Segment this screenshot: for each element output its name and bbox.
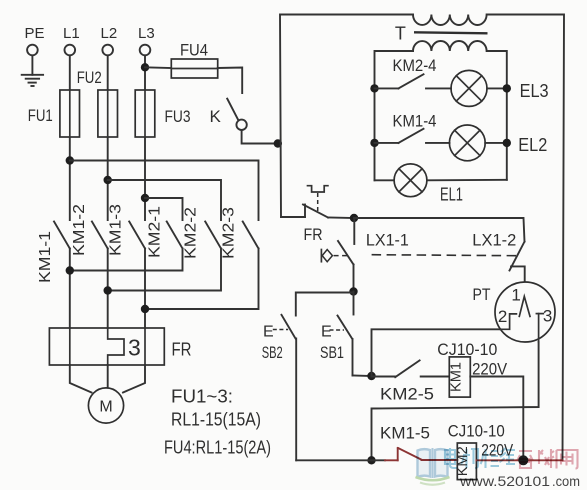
watermark book icon bbox=[416, 448, 450, 485]
contact KM2-2 bbox=[183, 207, 222, 259]
wire KM2-2 bottom tie bbox=[108, 249, 221, 291]
svg-text:3: 3 bbox=[543, 306, 552, 325]
wire L3 to FU4 bbox=[145, 66, 171, 69]
node KM2-4 left bbox=[370, 84, 378, 92]
node K-box junction bbox=[274, 139, 282, 147]
node KM1-4 left bbox=[370, 139, 378, 147]
node bottom left bbox=[367, 456, 375, 464]
svg-text:FR: FR bbox=[172, 340, 192, 360]
svg-text:FU3: FU3 bbox=[165, 107, 191, 126]
svg-text:EL2: EL2 bbox=[518, 135, 547, 155]
wire L1 bus upper bbox=[69, 56, 71, 220]
svg-text:KM2-2: KM2-2 bbox=[183, 207, 200, 259]
dashed link LX1-1 LX1-2 bbox=[372, 255, 519, 256]
lamp EL2 bbox=[449, 125, 485, 161]
svg-text:T: T bbox=[395, 24, 406, 44]
ground bbox=[22, 75, 43, 86]
wire KM2 coil to right edge bbox=[476, 459, 562, 461]
contact KM2-3 bbox=[221, 207, 259, 259]
switch K bbox=[210, 99, 247, 130]
wire L3 bus upper bbox=[144, 56, 146, 220]
svg-text:FR: FR bbox=[304, 225, 323, 244]
thermal overload FR box bbox=[49, 328, 191, 365]
svg-text:RL1-15(15A): RL1-15(15A) bbox=[171, 410, 261, 430]
contact KM2-1 bbox=[147, 206, 183, 258]
lamp EL1 bbox=[394, 164, 463, 205]
watermark title (vector pseudo-glyphs) bbox=[445, 448, 578, 469]
terminal PE bbox=[25, 25, 45, 56]
contact KM1-5 bbox=[372, 425, 431, 461]
svg-text:2: 2 bbox=[498, 307, 507, 326]
contact KM1-2 bbox=[71, 204, 108, 256]
svg-text:KM1-2: KM1-2 bbox=[71, 204, 88, 256]
contact LX1-2 bbox=[472, 232, 524, 297]
node L1 tie bbox=[66, 156, 74, 164]
node FR-LX1-1 bbox=[350, 214, 358, 222]
wire KM1 coil to bottom bbox=[470, 377, 523, 461]
wire KM2-1 bottom tie bbox=[70, 249, 183, 271]
node L2 lower tie bbox=[104, 286, 112, 294]
terminal L1 bbox=[63, 25, 80, 56]
node L3-FU4 junction bbox=[141, 63, 149, 71]
svg-text:KM2-5: KM2-5 bbox=[380, 386, 434, 404]
svg-text:FU4:RL1-15(2A): FU4:RL1-15(2A) bbox=[164, 438, 271, 458]
node L3 lower tie bbox=[141, 305, 149, 313]
svg-text:KM1: KM1 bbox=[449, 362, 465, 392]
contact KM1-1 bbox=[37, 222, 70, 284]
node EL3 right bbox=[503, 84, 511, 92]
button SB2 bbox=[262, 315, 297, 461]
svg-text:.com: .com bbox=[552, 474, 580, 489]
transformer T secondary bbox=[413, 41, 487, 51]
wire tie L2 to KM2-2 bbox=[108, 180, 221, 220]
wire FR to motor left bbox=[70, 365, 92, 393]
wire L3 bus lower bbox=[144, 249, 146, 329]
fuse FU3 bbox=[135, 90, 190, 137]
svg-text:1: 1 bbox=[511, 286, 520, 305]
node KM1 coil row bbox=[367, 372, 375, 380]
svg-text:SB1: SB1 bbox=[320, 343, 344, 362]
svg-text:M: M bbox=[99, 399, 112, 416]
svg-text:KM1-3: KM1-3 bbox=[108, 204, 125, 256]
contact KM1-4 bbox=[375, 113, 450, 143]
contact LX1-1 bbox=[338, 218, 409, 292]
wire PT pin3 down bbox=[372, 342, 539, 460]
node L3 tie bbox=[141, 194, 149, 202]
temperature controller PT bbox=[495, 282, 555, 342]
svg-text:CJ10-10: CJ10-10 bbox=[448, 422, 505, 441]
wire FR to LX1-2 corner bbox=[328, 217, 354, 220]
svg-text:PE: PE bbox=[25, 25, 45, 42]
fuse FU4 bbox=[171, 41, 217, 79]
motor M bbox=[88, 388, 123, 423]
svg-text:KM2-3: KM2-3 bbox=[221, 207, 238, 259]
svg-text:FU1: FU1 bbox=[28, 106, 53, 125]
wire FU4 to K bbox=[218, 68, 243, 94]
node SB feed bbox=[349, 287, 357, 295]
svg-text:KM1-5: KM1-5 bbox=[380, 425, 430, 443]
wire EL2 to box bbox=[485, 142, 507, 144]
svg-text:PT: PT bbox=[473, 285, 491, 304]
svg-text:L2: L2 bbox=[101, 25, 118, 42]
svg-text:KM1-1: KM1-1 bbox=[37, 231, 54, 283]
terminal L2 bbox=[101, 25, 118, 56]
wire SB2 bottom bbox=[296, 459, 371, 461]
lamp box outline bbox=[375, 51, 507, 180]
svg-text:FU2: FU2 bbox=[77, 68, 102, 87]
wire tie L3 to KM2-1 bbox=[145, 198, 183, 220]
wire top row to LX1-2 bbox=[354, 218, 525, 242]
actuator LX1-1 bbox=[321, 250, 347, 262]
svg-text:KM2-1: KM2-1 bbox=[147, 206, 164, 258]
svg-text:L3: L3 bbox=[138, 25, 155, 42]
wire L1 bus lower bbox=[69, 249, 71, 329]
terminal L3 bbox=[138, 25, 155, 56]
thermal element FR bbox=[308, 186, 328, 212]
wire EL3 to box bbox=[487, 87, 507, 89]
wire SB feed bbox=[296, 293, 354, 316]
svg-text:www.520101: www.520101 bbox=[459, 474, 550, 489]
svg-text:L1: L1 bbox=[63, 25, 80, 42]
wire KM1-5 to coil KM2 bbox=[422, 459, 458, 461]
wire FR to motor right bbox=[123, 365, 145, 393]
node EL2 right bbox=[503, 139, 511, 147]
svg-text:EL1: EL1 bbox=[440, 185, 463, 205]
wire L2 bus upper bbox=[107, 56, 109, 220]
wire FR to motor mid bbox=[107, 365, 109, 388]
fuse FU2 bbox=[77, 68, 118, 137]
wire L2 bus lower bbox=[107, 249, 109, 329]
svg-text:E: E bbox=[263, 323, 274, 340]
node L2 tie bbox=[104, 176, 112, 184]
contact KM2-4 bbox=[375, 57, 452, 88]
svg-text:LX1-2: LX1-2 bbox=[472, 232, 516, 250]
lamp EL3 bbox=[451, 70, 487, 106]
svg-text:K: K bbox=[210, 107, 222, 126]
svg-text:KM2-4: KM2-4 bbox=[393, 57, 437, 75]
contact KM1-3 bbox=[108, 204, 146, 256]
wire tie L1 to KM2-3 bbox=[70, 161, 259, 221]
control box outline top and right bbox=[280, 15, 413, 218]
svg-text:FU1~3:: FU1~3: bbox=[171, 387, 233, 407]
transformer T primary bbox=[395, 15, 487, 44]
coil KM2 bbox=[455, 443, 476, 480]
svg-text:FU4: FU4 bbox=[180, 41, 208, 60]
svg-text:SB2: SB2 bbox=[262, 343, 283, 362]
node L1 lower tie bbox=[66, 266, 74, 274]
button SB1 bbox=[320, 292, 372, 377]
wire K to control box bbox=[242, 130, 278, 144]
coil KM1 bbox=[449, 357, 471, 397]
node bottom right bbox=[518, 455, 528, 465]
svg-text:EL3: EL3 bbox=[520, 81, 549, 101]
svg-text:E: E bbox=[321, 323, 332, 340]
wire to PT pin2 bbox=[372, 329, 501, 376]
fuse FU1 bbox=[28, 90, 80, 137]
svg-text:KM1-4: KM1-4 bbox=[393, 113, 437, 131]
contact KM2-5 bbox=[372, 360, 450, 403]
svg-text:CJ10-10: CJ10-10 bbox=[437, 340, 497, 359]
wire KM2-3 bottom tie bbox=[145, 249, 259, 310]
contact FR bbox=[281, 205, 328, 245]
svg-text:3: 3 bbox=[128, 335, 141, 361]
svg-text:LX1-1: LX1-1 bbox=[366, 232, 409, 250]
watermark url bbox=[459, 474, 580, 489]
transformer core bbox=[414, 32, 488, 33]
wire PE to ground bbox=[31, 56, 33, 75]
